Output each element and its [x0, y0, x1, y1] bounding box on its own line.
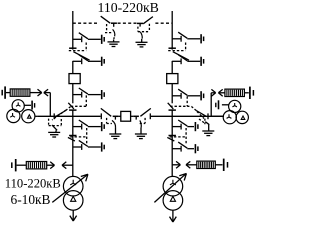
breaker Q2 right: [167, 74, 178, 84]
svg-text:6-10кВ: 6-10кВ: [11, 192, 51, 207]
line trap bars upper-right: [250, 87, 254, 99]
earthing branch right R4: [172, 120, 198, 131]
wire from trap lower-right: [215, 164, 222, 166]
earthing switch line-entry right linkage: [199, 119, 205, 125]
earthing switch line-entry right blade: [205, 122, 209, 125]
arrow line upper-left incoming: [44, 89, 51, 96]
line trap lower-right: [197, 161, 216, 168]
svg-text:110-220кВ: 110-220кВ: [98, 0, 159, 15]
label 6-10kV transformer LV side: [11, 192, 51, 207]
earthing branch left L5: [73, 140, 104, 151]
breaker Q1 left: [69, 74, 80, 84]
wire left feeder bus (lower mid): [72, 84, 74, 104]
disconnector bridge-left contact tick: [100, 113, 102, 119]
voltage transformer TV1 left winding: [7, 109, 20, 122]
disconnector right bus QS2 contact: [169, 109, 176, 111]
earthing switch jumper-left blade: [113, 29, 115, 39]
disconnector left bus QS1 contact: [69, 47, 76, 49]
wire from trap upper-right: [244, 92, 248, 94]
arrow line lower-right outgoing: [172, 161, 180, 168]
disconnector right bus QS1 contact: [169, 47, 176, 49]
transformer T1 OLTC arrow: [52, 174, 88, 202]
earthing branch right R1: [172, 32, 203, 43]
breaker Q3 bridge: [121, 111, 131, 121]
earthing switch jumper-right blade: [140, 32, 142, 39]
earthing switch bridge-left blade: [112, 120, 116, 127]
earthing switch line-entry left linkage: [49, 119, 62, 126]
disconnector bridge-right contact tick: [149, 113, 151, 119]
voltage transformer TV2 right winding: [236, 111, 248, 123]
disconnector line-entry left linkage: [66, 106, 71, 110]
disconnector QS jumper-right contact: [137, 23, 143, 26]
dashed link line-entry left to earthing: [52, 110, 66, 120]
disconnector right bus QS1 linkage: [168, 43, 185, 51]
earthing branch right R3: [172, 89, 203, 100]
disconnector line-entry left contact: [53, 113, 55, 119]
wire entry corner upper-right: [210, 93, 212, 117]
disconnector left bus QS1 linkage: [69, 43, 86, 51]
label 110-220kV transformer HV side: [5, 176, 61, 190]
earthing branch left L3: [73, 88, 104, 99]
earthing switch bridge-right linkage: [140, 118, 145, 124]
earthing branch left L1: [73, 33, 104, 44]
disconnector bridge-right jaw: [133, 116, 139, 119]
wire dashed repair jumper (left part): [73, 22, 99, 24]
earthing branch left L2: [73, 55, 104, 66]
disconnector QS jumper-left contact: [111, 23, 117, 27]
wire to trap lower-left: [17, 164, 27, 166]
wire entry horizontal right: [172, 115, 224, 117]
wire entry corner upper-left: [49, 93, 51, 117]
transformer T1 HV winding: [63, 176, 83, 196]
disconnector right bus QS2 blade: [168, 103, 174, 109]
disconnector left bus QS3 contact: [69, 135, 76, 137]
disconnector right bus QS2 linkage: [170, 96, 187, 106]
ground bridge-right: [135, 127, 147, 138]
earthing switch bridge-left linkage: [107, 118, 112, 124]
wire left feeder bus (mid): [72, 61, 74, 74]
disconnector right bus QS3 blade: [167, 137, 174, 141]
svg-text:110-220кВ: 110-220кВ: [5, 176, 61, 190]
wire VT2 to entry: [211, 115, 224, 117]
disconnector right bus QS1 blade: [173, 52, 189, 61]
ground jumper-right: [136, 39, 148, 47]
arrow line upper-right incoming: [218, 89, 225, 96]
voltage transformer TV2 top winding: [229, 100, 241, 112]
disconnector left bus QS2 linkage: [71, 95, 87, 106]
ground bridge-left: [109, 127, 121, 138]
disconnector left bus QS2 contact: [69, 109, 76, 111]
disconnector line-entry left blade: [56, 111, 66, 117]
disconnector QS jumper-left linkage: [105, 24, 113, 33]
wire bridge left-to-breaker: [118, 115, 120, 117]
wire left feeder bus (lower): [72, 110, 74, 176]
disconnector line-entry right contact: [207, 113, 209, 119]
disconnector left bus QS3 blade: [68, 137, 75, 141]
arrow T1 to 6-10kV load: [70, 210, 77, 221]
line trap bars lower-right: [224, 159, 228, 171]
disconnector QS jumper-right linkage: [138, 24, 150, 32]
wire right feeder bus (mid): [171, 61, 173, 74]
wire right feeder bus (lower mid): [171, 84, 173, 104]
disconnector right bus QS3 contact: [169, 135, 176, 137]
disconnector left bus QS1 blade: [73, 52, 89, 61]
label 110-220kV busbar voltage: [98, 0, 159, 15]
wire left feeder bus (upper): [72, 11, 74, 50]
disconnector left bus QS2 blade: [68, 103, 74, 109]
ground line-entry right: [202, 125, 214, 136]
line trap upper-right: [225, 89, 245, 96]
line trap bars upper-left: [2, 86, 5, 98]
disconnector line-entry right blade: [196, 111, 206, 117]
coupling capacitor left: [24, 101, 35, 110]
arrow line upper-left outgoing: [30, 89, 42, 96]
disconnector line-entry right linkage: [187, 106, 196, 110]
ground jumper-left: [108, 39, 120, 46]
arrow line lower-left incoming: [62, 162, 73, 169]
wire entry horizontal left: [37, 115, 72, 117]
earthing branch right R5: [172, 142, 198, 153]
transformer T2 LV winding: [163, 191, 183, 211]
disconnector bridge-right blade: [140, 108, 150, 116]
arrow line lower-left outgoing: [47, 162, 55, 169]
voltage transformer TV1 right winding: [22, 110, 35, 123]
earthing branch right R2: [172, 55, 203, 66]
ground line-entry left: [48, 130, 60, 137]
arrow line upper-right outgoing: [211, 89, 216, 96]
line trap lower-left: [26, 162, 46, 169]
arrow line lower-right incoming: [186, 161, 197, 168]
wire right feeder bus (lower): [171, 110, 173, 176]
disconnector right bus QS3 linkage: [170, 128, 187, 144]
earthing branch left L4: [73, 120, 104, 131]
dashed link line-entry right to earthing: [197, 112, 204, 119]
line trap bars lower-left: [12, 159, 16, 171]
disconnector QS jumper-right blade: [143, 17, 153, 24]
arrow T2 to 6-10kV load: [170, 210, 177, 222]
transformer T1 LV winding: [63, 191, 83, 211]
earthing switch bridge-right blade: [140, 120, 141, 127]
wire dashed repair jumper (mid part): [118, 22, 137, 24]
transformer T2 OLTC arrow: [154, 174, 186, 203]
wire dashed repair jumper (right part): [155, 22, 172, 24]
disconnector bridge-left jaw: [113, 116, 119, 119]
wire bridge right: [151, 115, 172, 117]
coupling capacitor right: [216, 100, 229, 109]
disconnector left bus QS3 linkage: [70, 128, 87, 144]
wire VT1 to entry: [36, 115, 38, 117]
line trap upper-left: [10, 89, 30, 96]
wire right feeder bus (upper): [171, 11, 173, 50]
earthing switch line-entry left blade: [52, 125, 57, 130]
wire breaker-to-right jaw: [131, 115, 134, 117]
transformer T2 HV winding: [163, 176, 183, 196]
voltage transformer TV2 left winding: [223, 111, 236, 124]
wire to trap upper-left: [6, 92, 10, 94]
voltage transformer TV1 top winding: [12, 100, 24, 112]
disconnector QS jumper-left blade: [101, 16, 111, 23]
wire bridge left: [73, 115, 101, 117]
disconnector bridge-left blade: [101, 108, 111, 116]
